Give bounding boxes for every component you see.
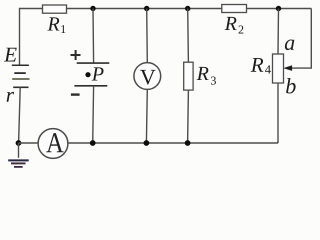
wire top rail right segment [247, 8, 312, 10]
resistor R2 [222, 5, 247, 13]
node bottom-left junction [16, 140, 22, 146]
node top rail voltmeter branch [144, 6, 149, 11]
wire bottom rail left of ammeter [19, 142, 39, 144]
label R3 [197, 67, 216, 85]
resistor R1 [43, 5, 67, 13]
label + polarity of P [71, 50, 81, 60]
label r [7, 92, 14, 102]
node top rail R4 branch [276, 6, 281, 11]
wire right edge from top rail down to wiper [292, 9, 312, 69]
wire R3 branch lower [187, 90, 190, 143]
ammeter A [38, 129, 68, 159]
label b [286, 78, 296, 93]
label R2 [225, 17, 244, 34]
label P with dot [85, 67, 103, 80]
wire voltmeter branch lower [145, 89, 148, 143]
voltmeter V [134, 63, 161, 90]
wire left rail [19, 8, 21, 66]
wire voltmeter branch upper [146, 9, 149, 63]
node bottom rail P branch [90, 140, 96, 146]
wire top rail left segment [20, 8, 43, 10]
wire P branch upper [92, 9, 95, 64]
label R1 [47, 17, 65, 33]
rheostat R4 body [273, 54, 284, 83]
ground [8, 143, 29, 167]
component P top plate [77, 62, 110, 64]
label E [4, 48, 17, 62]
wiper arrow of rheostat R4 [284, 66, 292, 71]
label R4 [251, 58, 271, 74]
wire R4 branch upper [277, 9, 280, 55]
node bottom rail R3 branch [185, 140, 191, 146]
node bottom rail voltmeter branch [144, 140, 150, 146]
component P bottom plate [74, 85, 107, 87]
wire top rail middle segment [67, 8, 222, 10]
wire bottom rail right of ammeter [68, 142, 278, 144]
resistor R3 [184, 62, 193, 90]
label - polarity of P [71, 93, 80, 95]
wire R4 branch lower [277, 83, 278, 142]
node top rail R3 branch [185, 6, 190, 11]
wire R3 branch upper [187, 9, 190, 63]
wire P branch lower [92, 86, 95, 143]
battery E with internal resistance r [12, 65, 30, 87]
wire left rail lower [19, 87, 21, 143]
node top rail P branch [90, 6, 95, 11]
label a [285, 40, 295, 51]
